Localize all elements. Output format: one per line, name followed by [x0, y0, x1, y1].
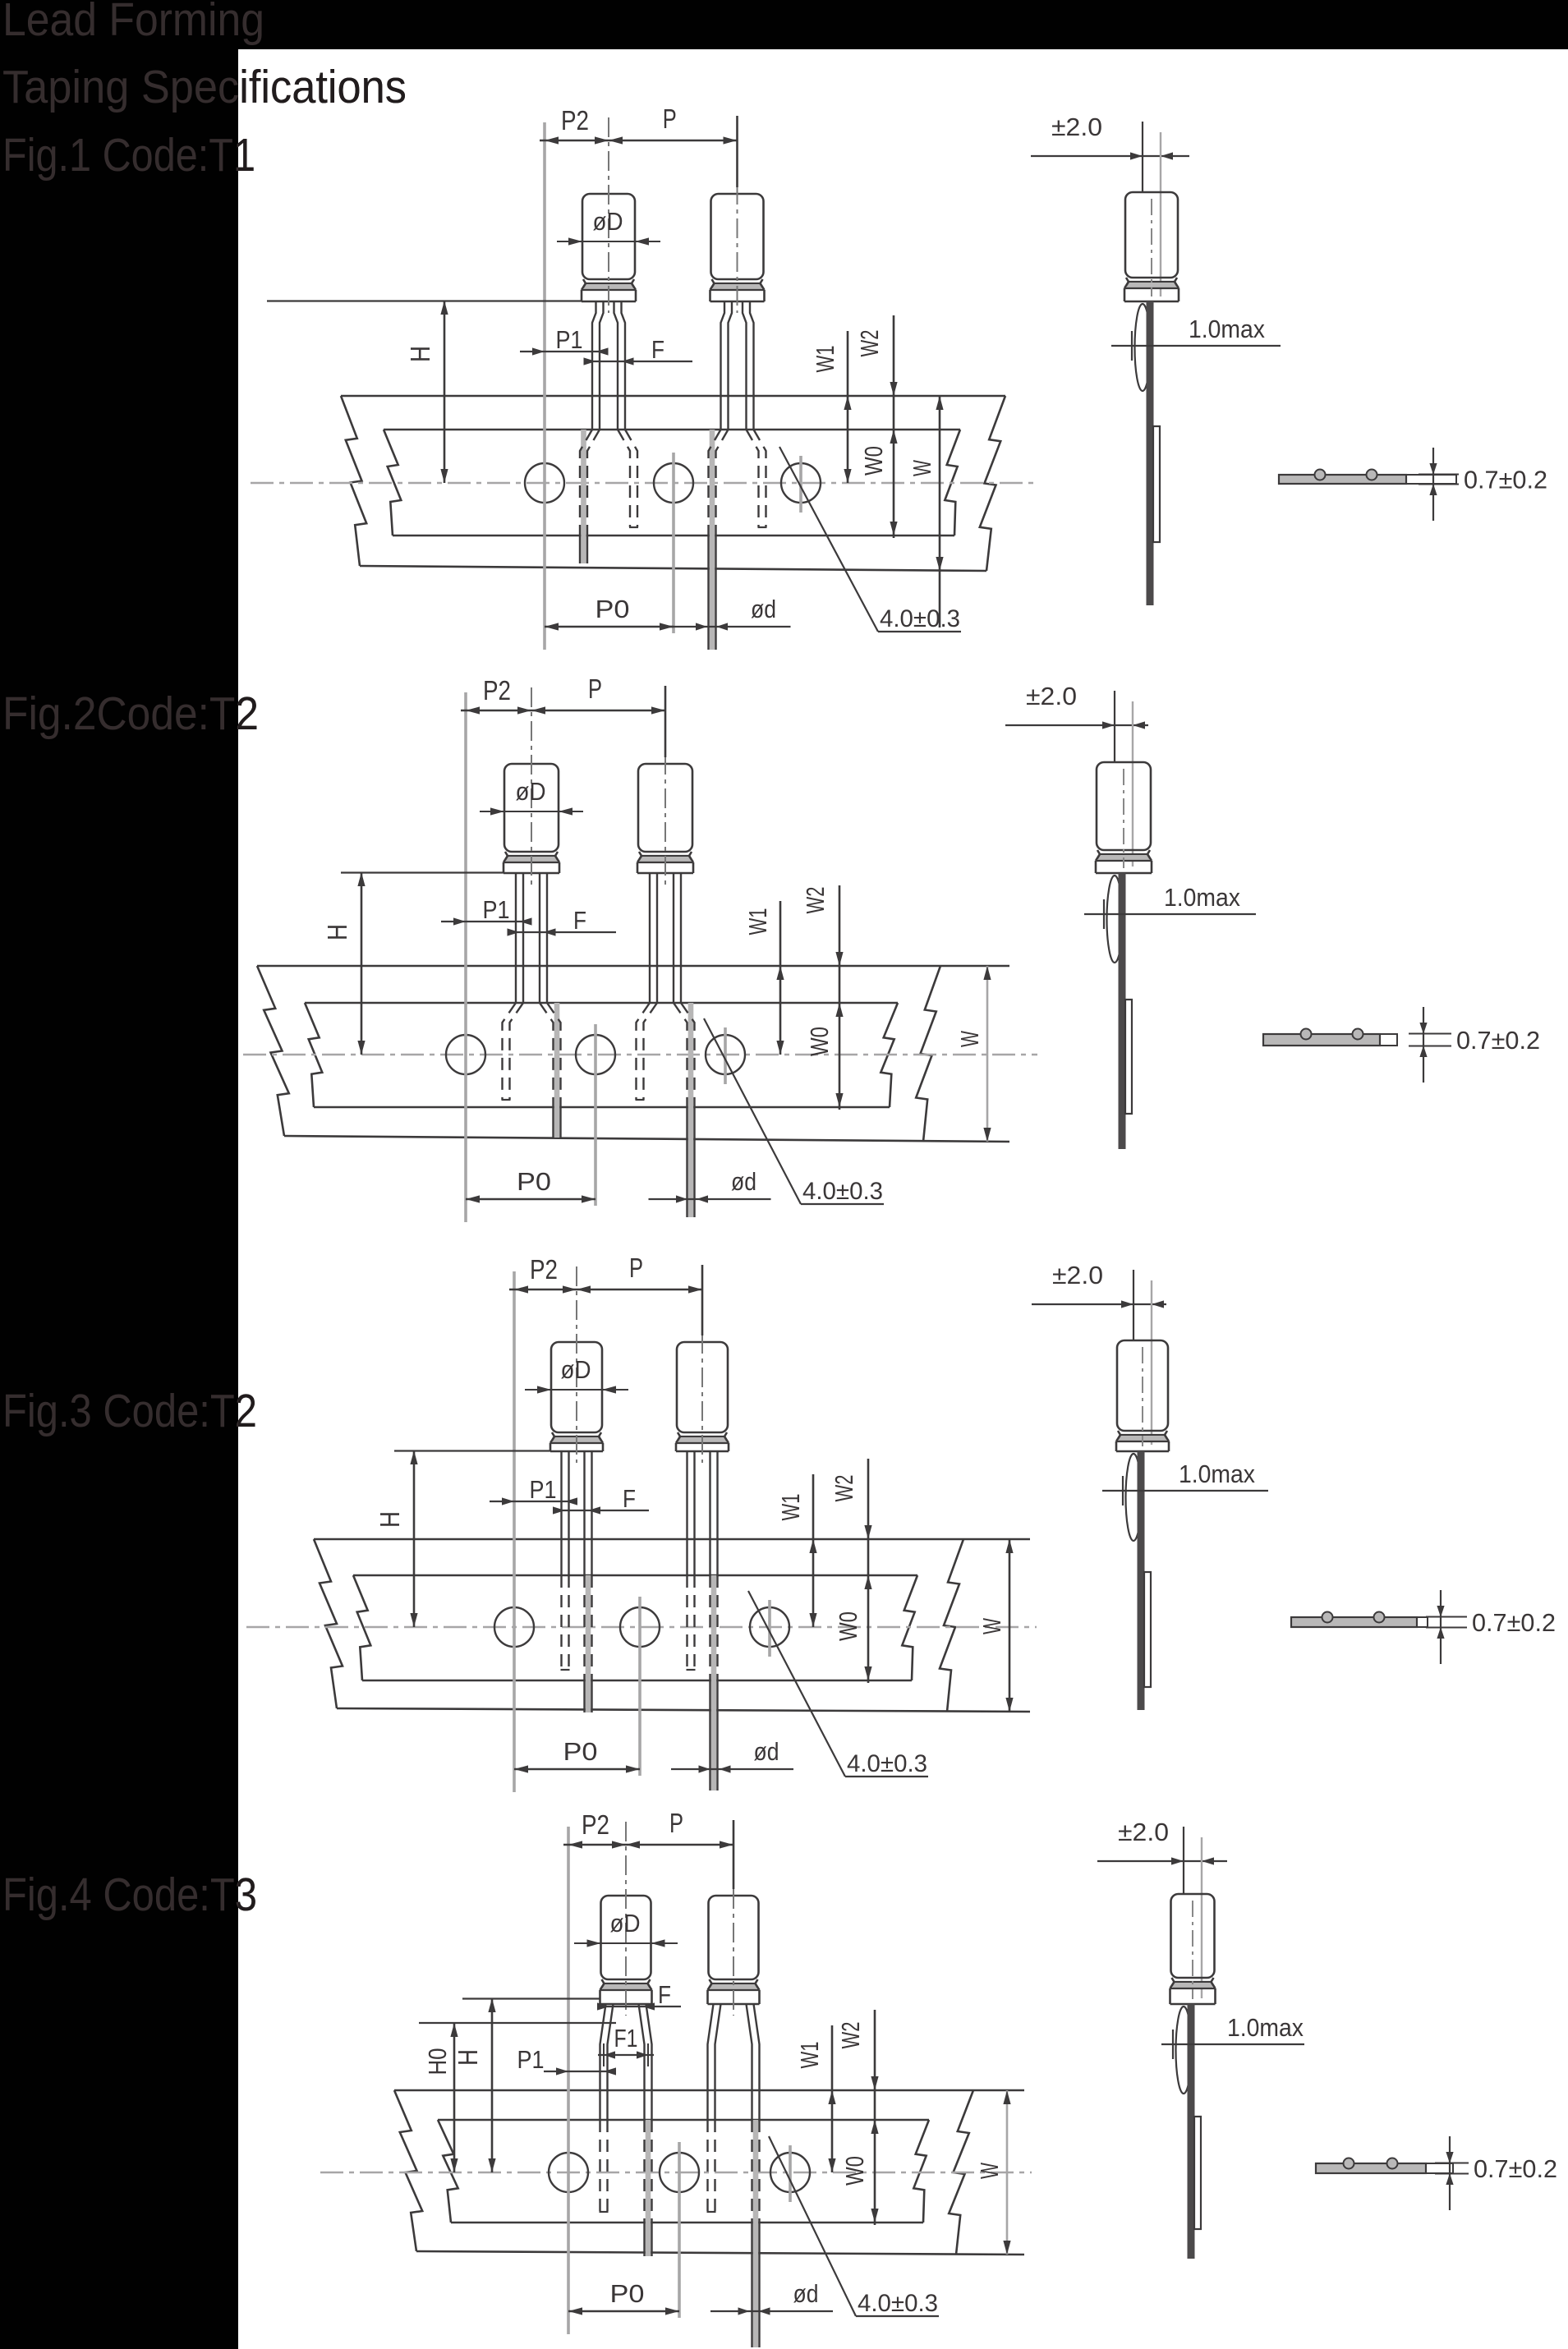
Fig.2 reference line through hole 1 [464, 692, 467, 1222]
dimension P0 fig1 [545, 595, 674, 631]
dimension W1 fig4 [795, 2025, 836, 2172]
side view lead bulge fig1 [1135, 304, 1151, 391]
capacitor C2 fig1 left lead [710, 430, 715, 650]
dimension øD fig4 [574, 1909, 678, 1947]
svg-text:F: F [623, 1484, 636, 1513]
svg-text:ød: ød [731, 1167, 756, 1196]
side capacitor center line fig4 [1192, 1901, 1193, 1999]
side view lead fig1 [1147, 301, 1154, 605]
dimension H0 fig4 [419, 2023, 616, 2172]
Fig.4 hold-down tape (inner band) [438, 2120, 929, 2223]
dimension W fig3 [977, 1539, 1014, 1712]
svg-text:P: P [629, 1253, 643, 1283]
Fig.4 extension line hole 2 [678, 2142, 681, 2318]
Fig.3 carrier tape outer edge [314, 1539, 1030, 1712]
svg-text:ød: ød [754, 1737, 779, 1766]
svg-text:4.0±0.3: 4.0±0.3 [847, 1750, 927, 1777]
svg-text:øD: øD [610, 1909, 641, 1938]
dimension øD fig2 [480, 777, 583, 816]
side view lead bulge fig3 [1126, 1454, 1142, 1541]
svg-text:Fig.2Code:T2: Fig.2Code:T2 [2, 687, 259, 740]
dimension ød fig3 [671, 1737, 793, 1773]
svg-text:P1: P1 [530, 1475, 557, 1504]
Fig.1 sprocket hole 1 [525, 463, 564, 503]
capacitor C2 fig1 right lead [743, 301, 747, 430]
side view 1.0max dimension fig2 [1084, 883, 1256, 929]
dimension P1 fig2 [441, 895, 532, 926]
Fig.3 hold-down tape (inner band) [353, 1575, 917, 1680]
capacitor C1 fig4 body [600, 1896, 652, 2004]
dimension H fig4 [453, 1998, 600, 2172]
leader 4.0±0.3 fig2 [704, 1018, 884, 1205]
capacitor C2 fig2 body [637, 764, 693, 873]
svg-text:W: W [908, 459, 936, 476]
svg-text:P1: P1 [556, 325, 583, 354]
side view lead fig4 [1188, 2004, 1195, 2259]
svg-text:P: P [669, 1808, 683, 1838]
svg-text:P2: P2 [582, 1809, 609, 1840]
dimension P1 fig4 [517, 2045, 617, 2075]
svg-text:Lead Forming: Lead Forming [2, 0, 264, 46]
Fig.4 sprocket hole 3 [770, 2153, 810, 2192]
Fig.2 carrier tape outer edge [257, 966, 1009, 1142]
svg-text:H: H [322, 924, 352, 940]
side capacitor center line fig2 [1123, 769, 1124, 868]
svg-text:W: W [975, 2162, 1004, 2179]
capacitor C1 fig3 right lead [586, 1575, 591, 1712]
side view tape strip fig1 [1153, 426, 1160, 542]
Fig.1 sprocket hole 2 [654, 463, 693, 503]
Fig.2 extension line hole 3 [724, 1027, 727, 1084]
dimension W fig4 [975, 2090, 1011, 2255]
capacitor C2 fig3 body [676, 1342, 729, 1451]
dimension P1 fig3 [490, 1475, 577, 1505]
capacitor C1 fig2 body [504, 764, 559, 873]
svg-text:H: H [405, 346, 435, 362]
svg-text:W1: W1 [776, 1494, 805, 1521]
svg-text:W0: W0 [859, 446, 888, 476]
Fig.1 tape center line [251, 482, 1037, 485]
side view lead bulge fig4 [1176, 2007, 1192, 2094]
dimension W2 / W0 fig4 [836, 2010, 879, 2225]
svg-text:1.0max: 1.0max [1227, 2013, 1304, 2042]
tape cross-section body fig1 [1279, 475, 1456, 484]
dimension P0 fig3 [514, 1737, 640, 1773]
svg-text:±2.0: ±2.0 [1052, 1261, 1103, 1289]
dimension P1 fig1 [520, 325, 609, 356]
svg-text:P0: P0 [595, 595, 630, 623]
dimension H fig3 [375, 1450, 550, 1627]
tape cross-section body fig2 [1263, 1034, 1397, 1046]
svg-text:F: F [658, 1980, 671, 2009]
svg-text:0.7±0.2: 0.7±0.2 [1472, 1608, 1556, 1637]
svg-text:H: H [375, 1511, 405, 1528]
capacitor C1 fig3 center line [576, 1266, 577, 1463]
side view tape strip fig4 [1194, 2117, 1201, 2229]
svg-text:W1: W1 [811, 346, 839, 373]
leader 4.0±0.3 fig3 [748, 1591, 928, 1777]
side view tape strip fig3 [1144, 1572, 1151, 1687]
svg-text:øD: øD [516, 777, 546, 806]
sprocket hole bumps fig3 [1322, 1612, 1333, 1623]
svg-text:H: H [453, 2049, 483, 2066]
Fig.4 sprocket hole 2 [660, 2153, 699, 2192]
side view ±2.0 dimension fig2 [1005, 682, 1148, 867]
dimension ød fig2 [649, 1167, 771, 1203]
svg-text:W0: W0 [840, 2156, 869, 2186]
Fig.3 tape center line [246, 1626, 1037, 1629]
dimension W2 / W0 fig2 [801, 885, 844, 1110]
capacitor side fig3 body [1116, 1340, 1169, 1451]
dimension P fig2 [531, 673, 665, 757]
dimension W fig2 [955, 966, 991, 1142]
dimension 0.7±0.2 fig2 [1409, 1007, 1540, 1083]
svg-text:4.0±0.3: 4.0±0.3 [880, 605, 960, 632]
svg-text:W2: W2 [801, 887, 830, 914]
dimension P2 fig1 [540, 105, 609, 145]
svg-text:4.0±0.3: 4.0±0.3 [858, 2290, 938, 2317]
Fig.3 extension line hole 2 [638, 1597, 641, 1776]
capacitor C1 fig3 left lead [560, 1451, 562, 1575]
capacitor C1 fig4 center line [625, 1822, 627, 2016]
svg-text:W2: W2 [855, 330, 884, 357]
svg-text:P0: P0 [610, 2279, 645, 2308]
dimension W2 / W0 fig1 [855, 315, 898, 538]
svg-text:±2.0: ±2.0 [1118, 1818, 1169, 1846]
dimension P0 fig2 [466, 1167, 595, 1203]
capacitor side fig4 body [1170, 1894, 1216, 2004]
dimension H fig2 [322, 872, 504, 1055]
capacitor C1 fig2 center line [531, 687, 532, 885]
dimension W1 fig2 [743, 901, 784, 1055]
capacitor C2 fig4 center line [733, 1822, 734, 2016]
dimension W1 fig1 [811, 331, 852, 483]
side view lead fig3 [1138, 1451, 1145, 1710]
capacitor C2 fig2 right lead [688, 1003, 694, 1217]
svg-text:W2: W2 [836, 2022, 865, 2049]
svg-text:F: F [573, 906, 586, 935]
side view 1.0max dimension fig1 [1111, 315, 1281, 361]
dimension F fig2 [508, 906, 617, 936]
svg-text:P: P [663, 103, 677, 134]
side view ±2.0 dimension fig3 [1032, 1261, 1166, 1445]
Fig.3 reference line through hole 1 [513, 1271, 516, 1792]
svg-text:Fig.1 Code:T1: Fig.1 Code:T1 [2, 129, 255, 182]
capacitor C2 fig3 center line [701, 1266, 703, 1463]
dimension W fig1 [908, 396, 944, 627]
Fig.4 carrier tape outer edge [394, 2090, 1024, 2255]
Fig.2 sprocket hole 2 [576, 1035, 615, 1074]
dimension 0.7±0.2 fig1 [1419, 448, 1547, 521]
capacitor C1 fig1 left lead [581, 430, 586, 563]
svg-text:Fig.3 Code:T2: Fig.3 Code:T2 [2, 1385, 257, 1437]
svg-text:P: P [588, 673, 602, 704]
sprocket hole bumps fig4 [1344, 2158, 1354, 2169]
capacitor C1 fig4 right lead [646, 2120, 651, 2256]
capacitor C1 fig1 body [582, 194, 636, 301]
svg-text:±2.0: ±2.0 [1051, 113, 1102, 141]
capacitor side fig2 body [1096, 762, 1152, 873]
svg-text:±2.0: ±2.0 [1026, 682, 1077, 710]
side capacitor center line fig1 [1151, 199, 1152, 296]
capacitor C1 fig3 body [550, 1342, 603, 1451]
dimension F fig3 [553, 1484, 649, 1515]
svg-text:1.0max: 1.0max [1164, 883, 1240, 912]
Fig.2 sprocket hole 1 [446, 1035, 485, 1074]
capacitor C2 fig2 center line [664, 687, 666, 885]
side view ±2.0 dimension fig4 [1097, 1818, 1227, 1998]
dimension 0.7±0.2 fig3 [1426, 1590, 1556, 1664]
tape cross-section body fig4 [1316, 2163, 1453, 2173]
dimension P0 fig4 [568, 2279, 679, 2315]
svg-text:ød: ød [793, 2279, 819, 2308]
Fig.3 extension line hole 3 [768, 1600, 771, 1657]
Fig.1 sprocket hole 3 [781, 463, 821, 503]
svg-text:W: W [977, 1617, 1006, 1634]
Fig.4 extension line hole 3 [789, 2145, 792, 2202]
capacitor side fig1 body [1124, 192, 1179, 301]
svg-text:P2: P2 [530, 1254, 558, 1285]
side view lead bulge fig2 [1107, 876, 1123, 963]
sprocket hole bumps fig2 [1301, 1029, 1312, 1040]
svg-text:P0: P0 [563, 1737, 598, 1766]
leader 4.0±0.3 fig1 [779, 447, 961, 632]
svg-text:W1: W1 [795, 2042, 824, 2069]
svg-text:W0: W0 [834, 1611, 862, 1641]
side view 1.0max dimension fig3 [1102, 1460, 1268, 1505]
Fig.1 carrier tape outer edge [341, 396, 1005, 571]
capacitor C2 fig3 left lead [686, 1451, 687, 1575]
svg-text:Fig.4 Code:T3: Fig.4 Code:T3 [2, 1869, 257, 1921]
capacitor C1 fig2 left lead [515, 873, 517, 1003]
Fig.2 extension line hole 2 [594, 1024, 597, 1206]
svg-text:4.0±0.3: 4.0±0.3 [802, 1178, 883, 1205]
dimension F1 fig4 [598, 2024, 654, 2066]
svg-text:1.0max: 1.0max [1189, 315, 1265, 343]
dimension P fig4 [626, 1808, 733, 1889]
svg-text:1.0max: 1.0max [1179, 1460, 1255, 1488]
capacitor C1 fig1 right lead [614, 301, 618, 430]
capacitor C1 fig1 center line [608, 117, 609, 313]
Fig.1 extension line hole 2 [672, 453, 675, 633]
svg-text:F: F [651, 335, 664, 364]
svg-text:P2: P2 [483, 675, 511, 706]
svg-text:W2: W2 [830, 1475, 858, 1502]
dimension P2 fig3 [509, 1254, 577, 1294]
dimension 0.7±0.2 fig4 [1435, 2136, 1557, 2210]
dimension ød fig4 [710, 2279, 833, 2315]
Fig.3 sprocket hole 2 [620, 1607, 660, 1647]
Fig.1 reference line through hole 1 [543, 122, 546, 650]
svg-text:øD: øD [561, 1355, 591, 1384]
leader 4.0±0.3 fig4 [769, 2136, 939, 2317]
svg-text:P0: P0 [517, 1167, 551, 1196]
dimension P fig1 [609, 103, 738, 187]
capacitor C2 fig4 right lead [753, 2120, 759, 2347]
dimension P fig3 [577, 1253, 702, 1335]
capacitor C2 fig2 left lead [649, 873, 651, 1003]
svg-text:P2: P2 [561, 105, 589, 136]
Fig.2 tape center line [243, 1054, 1037, 1056]
Fig.4 sprocket hole 1 [549, 2153, 588, 2192]
svg-text:W: W [955, 1030, 984, 1047]
dimension P2 fig2 [461, 675, 531, 715]
dimension W2 / W0 fig3 [830, 1459, 872, 1683]
svg-text:W1: W1 [743, 908, 772, 935]
capacitor C2 fig4 left lead [708, 2004, 714, 2120]
capacitor C2 fig1 body [710, 194, 765, 301]
Fig.4 reference line through hole 1 [567, 1827, 570, 2334]
Fig.2 sprocket hole 3 [706, 1035, 745, 1074]
side view lead fig2 [1119, 873, 1126, 1149]
svg-text:H0: H0 [423, 2048, 452, 2075]
capacitor C1 fig2 right lead [554, 1003, 560, 1138]
side view tape strip fig2 [1125, 1000, 1132, 1114]
svg-text:P1: P1 [483, 895, 510, 924]
black left bar [0, 0, 238, 2349]
dimension øD fig1 [557, 207, 660, 246]
svg-text:W0: W0 [805, 1027, 834, 1056]
Fig.1 extension line hole 3 [799, 456, 802, 513]
Fig.1 hold-down tape (inner band) [384, 430, 960, 536]
svg-text:øD: øD [593, 207, 623, 236]
svg-text:0.7±0.2: 0.7±0.2 [1474, 2154, 1557, 2183]
capacitor C2 fig4 body [708, 1896, 760, 2004]
Fig.3 sprocket hole 1 [494, 1607, 534, 1647]
svg-text:ød: ød [751, 595, 776, 623]
capacitor C2 fig1 center line [737, 117, 738, 313]
dimension F fig4 [597, 1980, 681, 2011]
tape cross-section body fig3 [1291, 1617, 1428, 1627]
Fig.2 hold-down tape (inner band) [305, 1003, 898, 1107]
dimension W1 fig3 [776, 1474, 817, 1627]
dimension H fig1 [267, 301, 582, 483]
svg-text:F1: F1 [614, 2024, 638, 2053]
side view 1.0max dimension fig4 [1161, 2013, 1304, 2059]
Fig.4 tape center line [320, 2172, 1032, 2174]
svg-text:0.7±0.2: 0.7±0.2 [1456, 1026, 1540, 1055]
side view ±2.0 dimension fig1 [1031, 113, 1189, 296]
side capacitor center line fig3 [1142, 1347, 1143, 1446]
sprocket hole bumps fig1 [1315, 470, 1326, 480]
dimension P2 fig4 [563, 1809, 626, 1849]
capacitor C2 fig3 right lead [711, 1575, 717, 1790]
dimension øD fig3 [525, 1355, 628, 1394]
Fig.3 sprocket hole 3 [750, 1607, 789, 1647]
dimension F fig1 [584, 335, 693, 365]
black top bar [0, 0, 1568, 49]
svg-text:0.7±0.2: 0.7±0.2 [1464, 466, 1547, 494]
dimension ød fig1 [669, 595, 791, 631]
capacitor C1 fig4 left lead [600, 2004, 606, 2120]
svg-text:P1: P1 [517, 2045, 545, 2074]
